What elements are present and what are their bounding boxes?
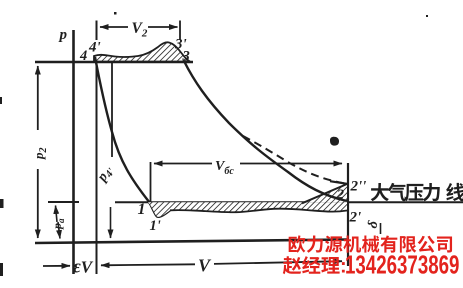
- V dimension: [101, 264, 195, 265]
- p2 dimension arrow: [37, 66, 39, 130]
- epsilon-V dimension left arrow: [43, 265, 70, 267]
- hatched area bottom (suction): [148, 202, 347, 217]
- Vdc dimension: [150, 162, 152, 202]
- atmospheric pressure line over suction strip: [148, 201, 347, 203]
- dashed curve end segment: [330, 181, 347, 184]
- line to 2'': [302, 184, 347, 203]
- watermark company name: [289, 235, 306, 252]
- svg-text:2: 2: [336, 188, 344, 203]
- specks: [114, 12, 117, 15]
- svg-text:p: p: [58, 27, 68, 43]
- svg-text:3: 3: [182, 49, 190, 65]
- svg-text:13426373869: 13426373869: [345, 249, 459, 279]
- vertical line at V1 (point 2): [347, 163, 349, 266]
- svg-text:2'': 2'': [350, 179, 367, 195]
- svg-text:2': 2': [349, 210, 362, 226]
- ink blob: [330, 137, 339, 146]
- compression curve 3 to 2: [184, 61, 347, 201]
- baseline V axis: [35, 240, 348, 244]
- watermark contact: [283, 256, 302, 274]
- svg-text:V: V: [198, 256, 212, 276]
- svg-text:εV: εV: [73, 257, 94, 278]
- expansion curve 4 to 1: [95, 57, 170, 217]
- p4' dimension line lower with arrow: [110, 207, 112, 238]
- hatched triangle near point 2: [303, 185, 347, 203]
- atmospheric pressure line left segment: [48, 201, 79, 203]
- dashed curve to 2'': [243, 136, 347, 184]
- atmospheric pressure line right segment: [349, 201, 463, 203]
- hatched area top (discharge): [94, 42, 190, 61]
- pa dimension arrow: [56, 206, 58, 223]
- p4' dimension line upper: [111, 63, 113, 157]
- svg-text:4: 4: [79, 48, 87, 64]
- svg-text:4': 4': [88, 40, 101, 56]
- svg-text:1': 1': [150, 218, 161, 234]
- label da qi ya li xian (atmospheric pressure line): [371, 183, 389, 201]
- svg-text:1: 1: [138, 201, 146, 218]
- V2 dimension: [100, 26, 128, 28]
- suction curve (wavy bottom edge): [170, 209, 347, 213]
- p2 pressure line: [35, 61, 193, 64]
- clearance line x=96.5: [96, 21, 98, 41]
- axis p (vertical): [72, 30, 75, 274]
